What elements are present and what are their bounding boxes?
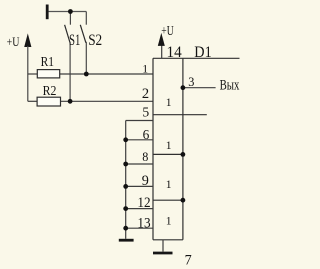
svg-text:+U: +U: [161, 23, 173, 38]
+U arrow left: [24, 33, 31, 47]
switch S2 blade: [80, 25, 86, 43]
node dot pin3: [181, 85, 186, 90]
ground (top-left common bar): [46, 5, 49, 20]
IC D1 right edge: [182, 58, 184, 240]
ground (pin 7): [153, 252, 173, 255]
separator gate3/4: [153, 199, 183, 201]
ground (left bus): [119, 239, 134, 242]
svg-text:1: 1: [166, 139, 172, 152]
wire pin7 stub: [162, 240, 164, 252]
wire S2 top drop: [85, 12, 87, 25]
node dot sep3/4: [181, 198, 186, 203]
node dot top rail: [68, 9, 73, 14]
svg-text:6: 6: [143, 127, 150, 142]
resistor R2: [37, 97, 60, 106]
svg-text:Вых: Вых: [220, 78, 240, 94]
switch S1 blade: [65, 25, 71, 43]
svg-text:D1: D1: [194, 43, 211, 61]
IC D1 box: [153, 58, 240, 240]
node dot bus pin6: [123, 137, 128, 142]
svg-text:8: 8: [142, 150, 148, 164]
svg-text:S1: S1: [69, 32, 80, 49]
svg-text:3: 3: [188, 75, 194, 89]
svg-text:9: 9: [142, 173, 149, 189]
svg-text:7: 7: [185, 252, 192, 268]
node dot sep2/3: [181, 152, 186, 157]
wire R2 stub: [28, 100, 37, 102]
wire S2 bottom to pin1 row: [85, 42, 87, 74]
IC D1 top edge (extended): [153, 57, 240, 59]
node dot bus pin8: [123, 162, 128, 167]
separator gate2/3: [153, 153, 183, 155]
svg-text:R2: R2: [43, 84, 57, 99]
separator gate1/2 (extended right): [153, 114, 207, 116]
svg-text:1: 1: [166, 96, 172, 109]
wire S1 bottom to pin2 row: [69, 42, 71, 102]
svg-text:1: 1: [142, 62, 148, 76]
IC D1 left edge: [152, 58, 154, 240]
wire pin2 row: [61, 100, 154, 102]
wire pin12 stub: [126, 208, 153, 210]
+U arrow right: [158, 33, 165, 46]
wire S1 top drop: [69, 12, 71, 25]
svg-text:12: 12: [137, 195, 150, 211]
wire pin1 row: [60, 73, 153, 75]
svg-text:2: 2: [142, 86, 149, 102]
svg-text:+U: +U: [7, 34, 20, 49]
resistor R1: [37, 70, 59, 78]
wire ground bus vertical: [125, 121, 127, 239]
wire top rail: [49, 11, 87, 13]
node dot bus pin13: [123, 226, 128, 231]
node dot pin2/S1: [68, 99, 73, 104]
svg-text:R1: R1: [41, 55, 54, 70]
svg-text:14: 14: [167, 44, 182, 61]
wire pin3 output: [183, 87, 216, 89]
svg-text:13: 13: [137, 215, 150, 231]
wire pin14: [161, 45, 163, 58]
wire R1 stub: [28, 73, 38, 75]
node dot bus pin9: [123, 184, 128, 189]
wire +U left rail: [27, 46, 29, 101]
wire pin13 stub: [126, 227, 153, 229]
svg-text:S2: S2: [88, 32, 102, 49]
node dot pin1/S2: [84, 72, 89, 77]
IC D1 bottom edge: [153, 239, 183, 241]
wire pin8 stub: [126, 163, 153, 165]
wire pin5 stub: [126, 120, 153, 122]
wire pin6 stub: [126, 139, 153, 141]
node dot bus pin12: [123, 206, 128, 211]
svg-text:1: 1: [166, 178, 172, 191]
svg-text:1: 1: [166, 215, 172, 228]
wire pin9 stub: [126, 185, 153, 187]
svg-text:5: 5: [142, 105, 149, 120]
